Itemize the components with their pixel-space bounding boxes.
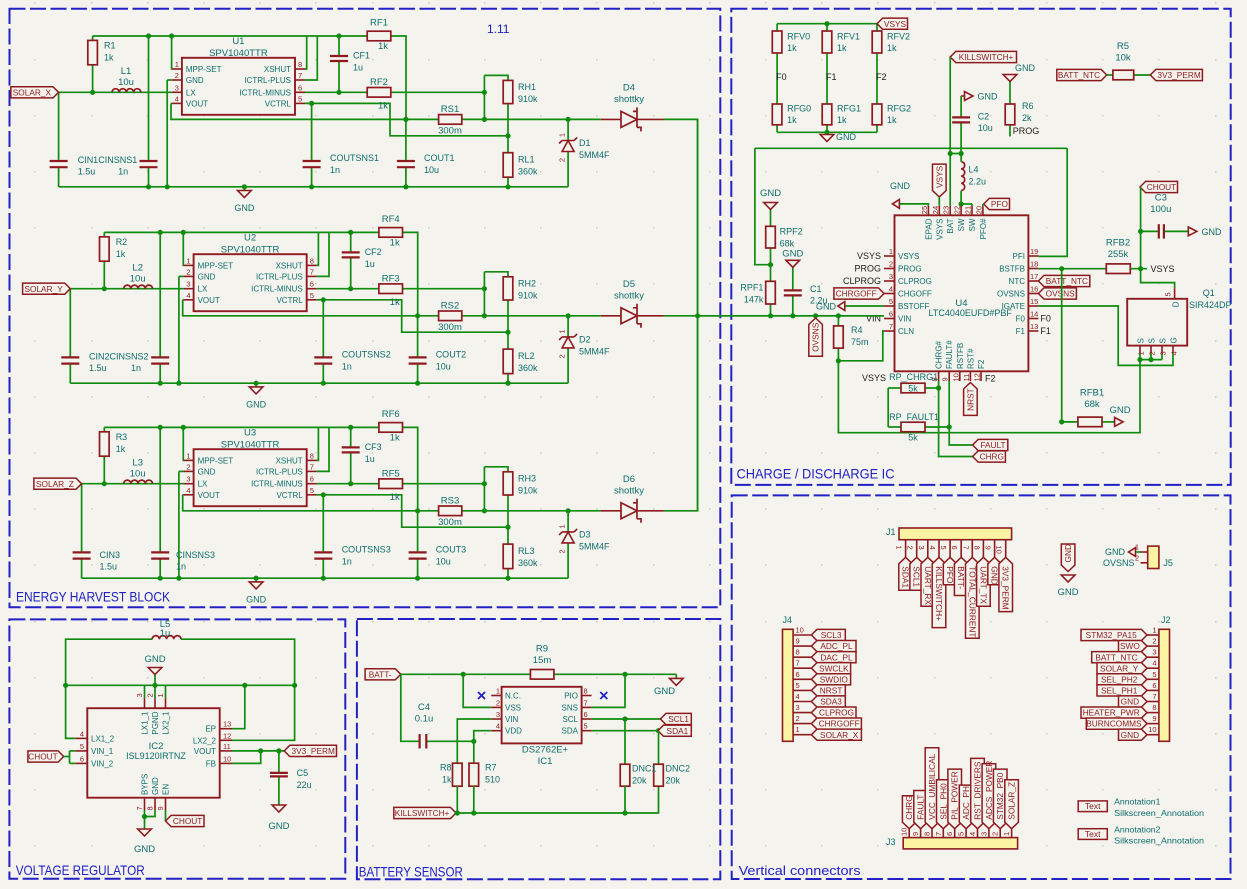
svg-text:C5: C5 bbox=[297, 768, 309, 778]
svg-text:RFV1: RFV1 bbox=[837, 32, 860, 42]
svg-text:D2: D2 bbox=[579, 334, 591, 344]
capacitor COUTSNS bbox=[303, 153, 379, 175]
capacitor CF2 bbox=[342, 247, 382, 269]
svg-text:NRST: NRST bbox=[965, 388, 975, 411]
svg-text:UART_RX: UART_RX bbox=[923, 566, 933, 605]
svg-text:CF1: CF1 bbox=[353, 51, 370, 61]
power symbol GND BYPS bbox=[134, 829, 155, 855]
svg-text:CHGOFF: CHGOFF bbox=[898, 290, 932, 299]
connector J3 pin 2 label STM32_PB0 bbox=[991, 769, 1007, 838]
wire BYPS GND pins to ground bbox=[142, 810, 155, 829]
svg-text:5: 5 bbox=[310, 291, 314, 300]
svg-text:VCTRL: VCTRL bbox=[265, 99, 292, 108]
svg-text:L1: L1 bbox=[121, 66, 132, 77]
connector J2 bbox=[1159, 615, 1171, 741]
svg-text:4: 4 bbox=[889, 285, 893, 294]
svg-text:R2: R2 bbox=[116, 237, 128, 247]
svg-text:BATT_NTC: BATT_NTC bbox=[1046, 276, 1088, 286]
svg-text:FB: FB bbox=[206, 759, 216, 768]
svg-text:4: 4 bbox=[80, 729, 84, 738]
svg-text:Vertical connectors: Vertical connectors bbox=[739, 863, 862, 878]
svg-text:DNC1: DNC1 bbox=[632, 764, 657, 774]
connector J4 bbox=[783, 615, 794, 741]
svg-text:7: 7 bbox=[135, 806, 144, 810]
svg-text:12: 12 bbox=[223, 731, 231, 740]
svg-text:VOUT: VOUT bbox=[198, 491, 220, 500]
svg-text:1: 1 bbox=[186, 451, 190, 460]
connector J1 pin 5 label PFO bbox=[939, 540, 957, 585]
svg-text:1: 1 bbox=[889, 247, 893, 256]
capacitor CIN CIN3 bbox=[73, 552, 91, 558]
svg-text:EPAD: EPAD bbox=[924, 218, 933, 239]
svg-text:300m: 300m bbox=[438, 517, 462, 528]
svg-text:24: 24 bbox=[931, 206, 940, 214]
svg-text:5: 5 bbox=[889, 297, 893, 306]
svg-text:6: 6 bbox=[310, 280, 314, 289]
svg-text:J2: J2 bbox=[1161, 615, 1171, 625]
svg-text:19: 19 bbox=[1030, 247, 1038, 256]
wire IGATE to Q1 gate bbox=[1038, 306, 1173, 365]
svg-text:SDA1: SDA1 bbox=[901, 566, 911, 588]
svg-text:COUT1: COUT1 bbox=[424, 153, 455, 163]
svg-text:VSYS: VSYS bbox=[935, 219, 944, 240]
svg-text:CLN: CLN bbox=[898, 327, 914, 336]
resistor R5 bbox=[1107, 41, 1151, 80]
svg-text:VSYS: VSYS bbox=[934, 165, 944, 188]
svg-text:VOUT: VOUT bbox=[198, 296, 220, 305]
connector J3 pin 1 label SOLAR_Z bbox=[1002, 780, 1018, 838]
svg-text:1n: 1n bbox=[176, 562, 186, 572]
svg-text:10: 10 bbox=[951, 373, 960, 381]
svg-text:ADC_PH: ADC_PH bbox=[961, 786, 971, 820]
svg-text:LX2_2: LX2_2 bbox=[193, 736, 217, 745]
svg-text:G: G bbox=[1170, 337, 1179, 343]
power symbol GND R6 bbox=[1003, 63, 1035, 82]
svg-text:GND: GND bbox=[1063, 544, 1073, 562]
connector J4 pin 2 label CHRGOFF bbox=[793, 714, 861, 729]
svg-text:VSYS: VSYS bbox=[1151, 264, 1175, 274]
capacitor C1 bbox=[784, 267, 828, 316]
svg-text:CINSNS3: CINSNS3 bbox=[176, 550, 215, 560]
svg-text:1: 1 bbox=[558, 524, 567, 528]
svg-text:CF2: CF2 bbox=[365, 247, 382, 257]
power symbol GND PGND bbox=[144, 654, 165, 685]
svg-text:GND: GND bbox=[198, 467, 216, 476]
svg-text:U3: U3 bbox=[244, 427, 256, 438]
svg-text:1: 1 bbox=[496, 687, 500, 696]
hierarchical label SOLAR_X bbox=[11, 87, 59, 98]
svg-text:8: 8 bbox=[972, 546, 981, 550]
capacitor COUTSNS bbox=[314, 349, 390, 371]
resistor RS2 bbox=[438, 300, 462, 333]
svg-text:6: 6 bbox=[80, 754, 84, 763]
svg-text:2: 2 bbox=[186, 267, 190, 276]
svg-text:F0: F0 bbox=[1016, 315, 1026, 324]
svg-text:2: 2 bbox=[991, 832, 1000, 836]
resistor R9 bbox=[530, 644, 554, 680]
svg-text:1: 1 bbox=[1137, 351, 1146, 355]
net label F0 bbox=[776, 72, 787, 82]
resistor RF2 bbox=[367, 77, 391, 112]
svg-text:CIN1CINSNS1: CIN1CINSNS1 bbox=[78, 155, 138, 165]
sheet title VOLTAGE REGULATOR bbox=[16, 862, 145, 878]
svg-text:R3: R3 bbox=[116, 432, 128, 442]
capacitor CINSNS bbox=[100, 550, 216, 572]
svg-text:COUT3: COUT3 bbox=[436, 544, 467, 554]
svg-text:3: 3 bbox=[1159, 351, 1168, 355]
schottky diode D4 bbox=[601, 83, 664, 132]
svg-text:SDA1: SDA1 bbox=[667, 726, 689, 736]
svg-text:7: 7 bbox=[961, 546, 970, 550]
svg-text:1u: 1u bbox=[365, 454, 375, 464]
svg-text:DNC2: DNC2 bbox=[666, 764, 691, 774]
svg-text:BURNCOMMS: BURNCOMMS bbox=[1086, 719, 1142, 729]
connector J2 pin 5 label SEL_PH2 bbox=[1097, 670, 1159, 685]
svg-text:SOLAR_Z: SOLAR_Z bbox=[1007, 782, 1017, 820]
svg-text:6: 6 bbox=[945, 832, 954, 836]
svg-text:1: 1 bbox=[796, 725, 800, 734]
svg-text:8: 8 bbox=[298, 60, 302, 69]
svg-text:1k: 1k bbox=[378, 101, 388, 112]
capacitor COUT bbox=[409, 349, 467, 371]
connector J1 pin 10 label 3V3_PERM bbox=[995, 540, 1013, 612]
svg-text:CIN2CINSNS2: CIN2CINSNS2 bbox=[89, 351, 149, 361]
power symbol GND C1 bbox=[782, 249, 803, 268]
svg-text:1k: 1k bbox=[390, 297, 400, 308]
net label PROG bbox=[1013, 126, 1040, 136]
svg-text:2: 2 bbox=[1152, 637, 1156, 646]
resistor RFG1 bbox=[822, 104, 861, 126]
power symbol GND bbox=[246, 578, 267, 604]
hierarchical label BATT_NTC bbox=[1057, 69, 1107, 80]
svg-text:3: 3 bbox=[186, 475, 190, 484]
connector J2 pin 7 label GND bbox=[1119, 692, 1159, 707]
svg-text:2k: 2k bbox=[1022, 113, 1032, 123]
svg-text:ICTRL-MINUS: ICTRL-MINUS bbox=[239, 88, 291, 97]
sheet title CHARGE / DISCHARGE IC bbox=[737, 466, 895, 482]
svg-text:1n: 1n bbox=[342, 361, 352, 371]
svg-text:15m: 15m bbox=[533, 655, 552, 666]
svg-text:RH3: RH3 bbox=[518, 473, 536, 483]
resistor DNC2 bbox=[654, 731, 690, 787]
connector J3 pin 7 label SEL_PH0 bbox=[934, 780, 950, 838]
svg-text:2: 2 bbox=[889, 260, 893, 269]
hierarchical label CHRGOFF bbox=[834, 288, 884, 299]
svg-text:MPP-SET: MPP-SET bbox=[198, 261, 234, 270]
svg-text:R6: R6 bbox=[1022, 101, 1034, 111]
svg-text:1k: 1k bbox=[442, 775, 452, 785]
svg-text:8: 8 bbox=[310, 256, 314, 265]
svg-text:CHARGE / DISCHARGE IC: CHARGE / DISCHARGE IC bbox=[737, 466, 895, 482]
svg-text:10: 10 bbox=[995, 546, 1004, 554]
hierarchical label OVSNS vertical bbox=[809, 318, 823, 356]
svg-text:VOLTAGE REGULATOR: VOLTAGE REGULATOR bbox=[16, 862, 145, 878]
IC U4 LTC4040EUFD#PBF bbox=[884, 206, 1038, 382]
svg-text:10u: 10u bbox=[424, 165, 439, 175]
sheet block stage 1: wires bbox=[59, 36, 698, 316]
connector J3 pin 4 label RST_DRIVERS bbox=[968, 758, 984, 837]
capacitor CF3 bbox=[342, 442, 382, 464]
connector J1 pin 8 label UART_TX bbox=[972, 540, 990, 607]
svg-text:GND: GND bbox=[198, 272, 216, 281]
svg-text:5: 5 bbox=[939, 546, 948, 550]
svg-text:BAT: BAT bbox=[946, 218, 955, 233]
connector J1 pin 6 label BATT- bbox=[950, 540, 968, 596]
svg-text:GND: GND bbox=[268, 821, 289, 832]
svg-text:R4: R4 bbox=[851, 325, 863, 335]
svg-text:OVSNS: OVSNS bbox=[811, 322, 821, 352]
svg-text:VOUT: VOUT bbox=[194, 747, 216, 756]
resistor RS1 bbox=[438, 104, 462, 137]
svg-text:3: 3 bbox=[175, 83, 179, 92]
svg-text:1u: 1u bbox=[160, 628, 171, 639]
resistor RFV0 bbox=[772, 31, 810, 53]
svg-text:7: 7 bbox=[1152, 692, 1156, 701]
hierarchical label CHRG bbox=[973, 451, 1006, 462]
svg-text:GND: GND bbox=[246, 399, 267, 409]
svg-text:ENERGY HARVEST BLOCK: ENERGY HARVEST BLOCK bbox=[16, 589, 171, 605]
svg-text:D5: D5 bbox=[623, 279, 635, 290]
connector J1 pin 4 label KILLSWITCH+ bbox=[928, 540, 946, 628]
svg-text:6: 6 bbox=[298, 83, 302, 92]
resistor RF1 bbox=[367, 18, 391, 53]
svg-text:L4: L4 bbox=[969, 165, 979, 175]
resistor RL1 bbox=[503, 153, 538, 178]
svg-text:CHOUT: CHOUT bbox=[28, 752, 58, 762]
resistor RL2 bbox=[503, 349, 538, 374]
connector J4 pin 8 label DAC_PL bbox=[793, 648, 856, 663]
svg-text:0.1u: 0.1u bbox=[415, 714, 434, 725]
svg-text:10k: 10k bbox=[1115, 53, 1131, 64]
hierarchical label BATT- bbox=[365, 669, 401, 680]
svg-text:D1: D1 bbox=[579, 138, 591, 148]
wire VSYS PFI rail bbox=[755, 148, 1067, 264]
svg-text:BSTOFF: BSTOFF bbox=[898, 302, 930, 311]
svg-text:RS2: RS2 bbox=[441, 300, 459, 311]
resistor RFB2 bbox=[1106, 238, 1130, 274]
svg-text:F2: F2 bbox=[977, 359, 986, 369]
svg-text:J4: J4 bbox=[783, 615, 793, 625]
wire KILLSWITCH rail bbox=[455, 786, 659, 815]
wire SCL bbox=[592, 716, 661, 721]
svg-text:PROG: PROG bbox=[898, 265, 922, 274]
svg-text:GND: GND bbox=[1058, 587, 1079, 598]
svg-text:R1: R1 bbox=[104, 41, 116, 51]
svg-text:RS1: RS1 bbox=[441, 104, 459, 115]
svg-text:RL1: RL1 bbox=[518, 155, 535, 165]
resistor RH3 bbox=[503, 472, 538, 496]
svg-text:4: 4 bbox=[175, 94, 179, 103]
svg-text:TOTAL_CURRENT: TOTAL_CURRENT bbox=[967, 566, 977, 637]
svg-text:VIN: VIN bbox=[898, 315, 912, 324]
svg-text:RH1: RH1 bbox=[518, 82, 536, 92]
svg-text:1: 1 bbox=[558, 133, 567, 137]
svg-text:XSHUT: XSHUT bbox=[276, 456, 303, 465]
svg-text:1.11: 1.11 bbox=[487, 22, 510, 36]
svg-text:4: 4 bbox=[968, 832, 977, 836]
svg-text:CHRG#: CHRG# bbox=[935, 340, 944, 369]
hierarchical label NRST vertical bbox=[964, 383, 978, 416]
svg-text:J3: J3 bbox=[886, 837, 896, 847]
connector J4 pin 4 label SDA3 bbox=[793, 692, 845, 707]
svg-text:1k: 1k bbox=[378, 41, 388, 52]
svg-text:SEL_PH1: SEL_PH1 bbox=[1101, 686, 1138, 696]
svg-text:2: 2 bbox=[558, 549, 567, 553]
svg-text:COUTSNS1: COUTSNS1 bbox=[330, 153, 379, 163]
svg-text:1: 1 bbox=[175, 60, 179, 69]
svg-text:68k: 68k bbox=[780, 239, 795, 249]
svg-text:1: 1 bbox=[895, 546, 904, 550]
svg-text:1n: 1n bbox=[118, 167, 128, 177]
hierarchical label KILLSWITCH+ bbox=[394, 807, 456, 818]
svg-text:GND: GND bbox=[186, 76, 204, 85]
svg-text:L3: L3 bbox=[132, 457, 143, 468]
svg-text:GND: GND bbox=[760, 188, 781, 199]
sheet ENERGY HARVEST BLOCK border bbox=[10, 9, 721, 608]
hierarchical label CHOUT EN bbox=[166, 815, 205, 826]
svg-text:6: 6 bbox=[950, 546, 959, 550]
svg-text:1k: 1k bbox=[887, 43, 897, 53]
power symbol GND BSTOFF bbox=[816, 302, 884, 312]
resistor RFB1 bbox=[1062, 388, 1115, 427]
svg-text:910k: 910k bbox=[518, 290, 538, 300]
svg-text:2: 2 bbox=[906, 546, 915, 550]
capacitor CINSNS bbox=[78, 155, 158, 177]
svg-text:2.2u: 2.2u bbox=[810, 296, 828, 306]
IC U2 SPV1040TTR bbox=[184, 232, 317, 311]
svg-text:4: 4 bbox=[496, 722, 500, 731]
svg-text:C1: C1 bbox=[810, 284, 822, 294]
svg-text:shottky: shottky bbox=[614, 94, 644, 105]
text box Annotation1 bbox=[1078, 797, 1204, 818]
hierarchical label 3V3_PERM output bbox=[284, 745, 336, 756]
svg-text:10: 10 bbox=[796, 626, 804, 635]
connector J4 pin 9 label ADC_PL bbox=[793, 637, 856, 652]
svg-text:RPF1: RPF1 bbox=[740, 283, 763, 293]
svg-text:VOUT: VOUT bbox=[186, 99, 208, 108]
connector J4 pin 7 label SWCLK bbox=[793, 659, 851, 674]
svg-text:CHOUT: CHOUT bbox=[173, 816, 203, 826]
svg-text:10: 10 bbox=[1148, 725, 1156, 734]
connector J5 bbox=[1148, 546, 1173, 568]
svg-text:D3: D3 bbox=[579, 529, 591, 539]
svg-text:7: 7 bbox=[889, 322, 893, 331]
wire VIN bus bbox=[698, 313, 884, 318]
svg-text:CHRG: CHRG bbox=[980, 452, 1004, 462]
svg-text:SW: SW bbox=[957, 218, 966, 231]
connector J1 pin 1 label SDA1 bbox=[895, 540, 913, 591]
zener diode D3 bbox=[558, 524, 611, 553]
svg-text:8: 8 bbox=[584, 687, 588, 696]
svg-text:S: S bbox=[1148, 338, 1157, 343]
wire VDD node bbox=[471, 731, 491, 744]
svg-text:RSTFB: RSTFB bbox=[956, 343, 965, 369]
sheet title ENERGY HARVEST BLOCK bbox=[16, 589, 171, 605]
svg-text:LX2_1: LX2_1 bbox=[162, 711, 171, 735]
svg-text:3: 3 bbox=[135, 693, 144, 697]
svg-text:RFG2: RFG2 bbox=[887, 104, 911, 114]
svg-text:2: 2 bbox=[796, 714, 800, 723]
sheet VOLTAGE REGULATOR border bbox=[9, 619, 345, 878]
svg-text:RF6: RF6 bbox=[382, 409, 400, 420]
svg-text:7: 7 bbox=[298, 71, 302, 80]
svg-text:CHRG: CHRG bbox=[904, 795, 914, 819]
svg-text:8: 8 bbox=[923, 832, 932, 836]
schottky diode D6 bbox=[601, 474, 664, 523]
svg-text:F2: F2 bbox=[985, 374, 996, 384]
svg-text:D4: D4 bbox=[623, 83, 635, 94]
svg-text:GND: GND bbox=[1121, 730, 1139, 740]
junctions bbox=[102, 230, 571, 386]
hierarchical label SOLAR_Z bbox=[34, 478, 82, 489]
svg-text:GND: GND bbox=[990, 566, 1000, 584]
svg-text:R5: R5 bbox=[1117, 41, 1129, 52]
connector J3 pin 6 label P/L_POWER bbox=[945, 769, 961, 838]
wire VSYS pullups bbox=[862, 373, 888, 427]
capacitor C3 bbox=[1141, 193, 1189, 239]
svg-text:GND: GND bbox=[1105, 547, 1126, 557]
sheet block stage 3: wires bbox=[82, 316, 698, 578]
svg-text:FAULT: FAULT bbox=[916, 794, 926, 819]
svg-text:BATT_NTC: BATT_NTC bbox=[1095, 652, 1137, 662]
svg-text:ICTRL-PLUS: ICTRL-PLUS bbox=[256, 467, 303, 476]
power symbol GND bbox=[234, 187, 255, 213]
svg-text:1: 1 bbox=[558, 329, 567, 333]
svg-text:PFI: PFI bbox=[1013, 252, 1025, 261]
wire SNS bbox=[592, 674, 625, 707]
connector J4 pin 6 label SWDIO bbox=[793, 670, 851, 685]
IC U3 SPV1040TTR bbox=[184, 427, 317, 506]
wire CHOUT to Q1 drain bbox=[1138, 187, 1175, 288]
svg-text:SEL_PH0: SEL_PH0 bbox=[938, 783, 948, 820]
connector J3 pin 8 label VCC_UMBILICAL bbox=[923, 748, 939, 838]
svg-text:8: 8 bbox=[1152, 703, 1156, 712]
svg-text:CHOUT: CHOUT bbox=[1147, 182, 1177, 192]
power symbol GND bbox=[246, 383, 267, 409]
hierarchical label FAULT bbox=[973, 439, 1008, 450]
svg-text:RST#: RST# bbox=[966, 348, 975, 369]
svg-text:1: 1 bbox=[1152, 626, 1156, 635]
svg-text:5: 5 bbox=[1164, 292, 1173, 296]
svg-text:VSYS: VSYS bbox=[884, 19, 907, 29]
inductor L4 bbox=[959, 154, 987, 207]
resistor RF4 bbox=[379, 214, 403, 249]
junctions bbox=[90, 33, 571, 189]
connector J1 pin 7 label TOTAL_CURRENT bbox=[961, 540, 979, 639]
connector J1 pin 9 label GND bbox=[984, 540, 1002, 585]
svg-text:COUT2: COUT2 bbox=[436, 349, 467, 359]
svg-text:1n: 1n bbox=[342, 556, 352, 566]
svg-text:DS2762E+: DS2762E+ bbox=[522, 745, 569, 756]
wire BATT- rail bbox=[401, 672, 677, 677]
svg-text:5: 5 bbox=[310, 486, 314, 495]
svg-text:9: 9 bbox=[984, 546, 993, 550]
inductor L3 bbox=[124, 457, 153, 483]
svg-text:PGND: PGND bbox=[151, 711, 160, 734]
svg-text:GND: GND bbox=[246, 594, 267, 604]
svg-text:9: 9 bbox=[156, 806, 165, 810]
svg-text:ADCS_POWER: ADCS_POWER bbox=[984, 761, 994, 820]
hierarchical label PFO bbox=[983, 198, 1010, 209]
svg-text:RF1: RF1 bbox=[370, 18, 388, 29]
resistor R7 bbox=[469, 741, 500, 813]
svg-text:IGATE: IGATE bbox=[1002, 302, 1025, 311]
wire BAT- sense to Q1 source bbox=[838, 360, 1140, 433]
hierarchical label GND vertical bbox=[1061, 544, 1075, 572]
svg-text:1k: 1k bbox=[116, 444, 126, 454]
svg-text:MPP-SET: MPP-SET bbox=[186, 65, 222, 74]
svg-text:7: 7 bbox=[796, 659, 800, 668]
